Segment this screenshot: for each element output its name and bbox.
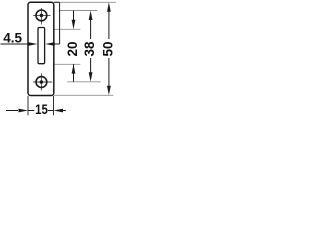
svg-text:38: 38 — [82, 41, 97, 57]
svg-text:15: 15 — [35, 102, 48, 117]
svg-text:50: 50 — [101, 41, 116, 56]
svg-text:20: 20 — [65, 41, 80, 56]
svg-text:4.5: 4.5 — [3, 31, 22, 46]
